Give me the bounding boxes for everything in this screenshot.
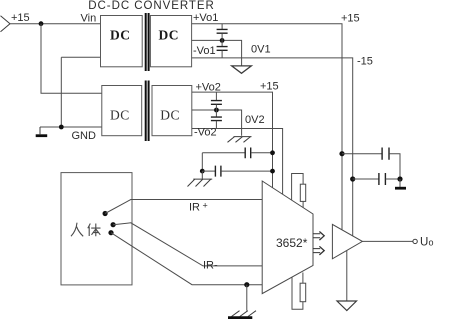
ground 0V1 triangle (232, 66, 252, 73)
wire DC1 return terminal (61, 56, 100, 58)
node 0V2 cap junction (214, 108, 219, 113)
node GND junction (59, 125, 64, 130)
DC-DC converter 1 transformer core (146, 13, 149, 71)
svg-text:3652*: 3652* (276, 236, 308, 250)
svg-text:IR-: IR- (203, 260, 218, 272)
node filter ground junction (200, 169, 205, 174)
svg-text:DC: DC (160, 107, 180, 122)
wire -Vo1 to -15 rail (192, 58, 353, 236)
terminal Uo circle (413, 239, 417, 243)
ground 0V2 hatched (228, 137, 252, 143)
svg-text:DC: DC (110, 28, 131, 43)
node +15 rail cap junction (339, 151, 344, 156)
resistor R2 bottom loop (292, 277, 303, 309)
DC-DC converter 2 primary box (102, 86, 142, 136)
wire common to ground (246, 285, 248, 311)
capacitor C8 (-15 rail) (353, 178, 379, 180)
resistor R1 top loop (292, 174, 304, 201)
svg-text:+15: +15 (341, 13, 360, 25)
DC-DC converter 1 secondary box (150, 16, 191, 67)
isolation amplifier 3652 (262, 181, 313, 294)
wire junction down to second converter Vin (41, 24, 102, 94)
svg-text:+15: +15 (11, 12, 30, 24)
capacitor C6 (filter) (202, 170, 215, 172)
capacitor C1 (+Vo1 to 0V1) (221, 24, 223, 30)
svg-text:o: o (429, 238, 434, 248)
arrow output 1 (313, 232, 324, 241)
wire electrode2 to IR- (113, 223, 262, 266)
wire 0V1 to ground (192, 40, 242, 66)
node cap ground junction (397, 176, 402, 181)
op-amp U1 (332, 224, 362, 258)
capacitor C7 (+15 rail) (342, 153, 382, 155)
node electrode 3 (108, 230, 113, 235)
wire down to GND rail (60, 57, 62, 127)
node junction top-left (39, 21, 44, 26)
svg-text:U: U (420, 237, 428, 249)
node 0V1 cap junction (220, 38, 225, 43)
arrow output 2 (313, 246, 324, 255)
human body box (61, 173, 132, 285)
ground chassis bar left (39, 127, 41, 134)
wire +Vo2 to +15 isolated rail (192, 92, 273, 188)
wire op-amp to ground (346, 250, 348, 301)
svg-text:Vin: Vin (81, 13, 97, 25)
node electrode 2 (111, 222, 116, 227)
wire +Vo1 to +15 rail (192, 24, 342, 230)
svg-text:DC: DC (159, 28, 180, 43)
capacitor C4 (0V2 to -Vo2) (215, 110, 217, 117)
wire -Vo2 down to 3652 (192, 129, 283, 195)
svg-text:-Vo1: -Vo1 (193, 45, 216, 57)
input terminal chevron +15 (1, 16, 11, 32)
DC-DC converter 2 transformer core (146, 81, 149, 142)
svg-text:-Vo2: -Vo2 (194, 127, 217, 139)
node common junction (244, 282, 249, 287)
svg-text:DC: DC (110, 107, 130, 122)
capacitor C5 (filter to +15 isolated) (202, 152, 245, 154)
svg-text:IR: IR (189, 202, 200, 214)
label ren-ti glyphs (71, 223, 101, 237)
wire electrode1 to IR+ (105, 200, 262, 214)
wire op-amp output (362, 240, 413, 242)
wire C5 left down (201, 153, 203, 171)
wire electrode3 to common (111, 233, 262, 285)
ground filter hatched (201, 171, 203, 179)
svg-text:DC-DC CONVERTER: DC-DC CONVERTER (88, 0, 215, 12)
node C5 right junction (270, 150, 275, 155)
capacitor C3 (+Vo2 to 0V2) (215, 92, 217, 100)
node C6 right junction (270, 169, 275, 174)
svg-text:0V2: 0V2 (245, 114, 265, 126)
svg-text:0V1: 0V1 (251, 44, 271, 56)
svg-text:+Vo2: +Vo2 (196, 82, 221, 94)
node electrode 1 (103, 211, 108, 216)
DC-DC converter 2 secondary box (152, 86, 192, 136)
svg-text:-15: -15 (357, 56, 373, 68)
svg-text:+15: +15 (260, 81, 279, 93)
DC-DC converter 1 primary box (101, 16, 143, 67)
node -15 rail cap junction (350, 176, 355, 181)
wire +15 input to Vin (10, 23, 101, 25)
ground common hatched (232, 311, 257, 317)
svg-text:+Vo1: +Vo1 (193, 12, 218, 24)
ground chassis bar right (399, 179, 401, 187)
capacitor C2 (0V1 to -Vo1) (221, 40, 223, 46)
wire GND rail (40, 126, 102, 128)
svg-text:+: + (203, 201, 208, 211)
ground op-amp triangle (337, 301, 357, 311)
wire 0V2 to hatched ground (192, 110, 242, 136)
svg-text:GND: GND (72, 130, 97, 142)
